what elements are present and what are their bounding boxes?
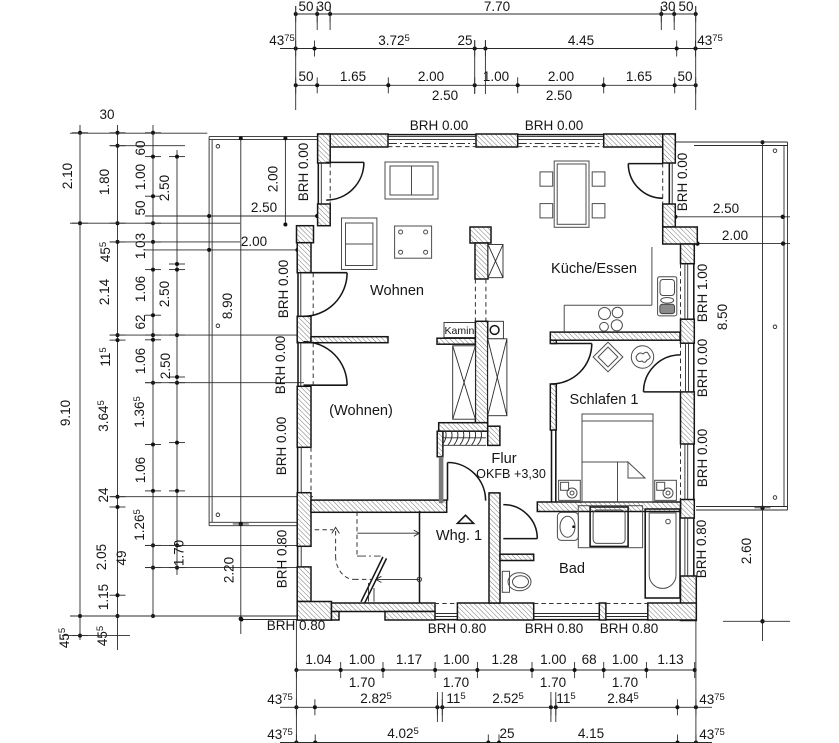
dining chairs — [540, 172, 553, 186]
svg-text:30: 30 — [99, 107, 114, 122]
svg-text:1.03: 1.03 — [133, 233, 148, 259]
left dimension chain L3 — [132, 125, 161, 618]
dimension line B1 (1.04/1.00/1.17/1.00/1.28/1.00/68/1.00/1.13) — [294, 652, 696, 690]
top wall window 2 (BRH 0.00) — [518, 134, 604, 136]
Wohnen bottom wall — [311, 500, 447, 512]
svg-text:9.10: 9.10 — [58, 400, 73, 426]
Kueche/Schlafen partition — [550, 332, 680, 340]
svg-text:BRH 0.00: BRH 0.00 — [695, 429, 710, 488]
terrace dim line 8.90 / 2.20 — [240, 137, 242, 634]
svg-text:4.15: 4.15 — [578, 726, 604, 741]
bed Schlafen — [582, 414, 653, 502]
svg-text:Schlafen 1: Schlafen 1 — [570, 392, 639, 408]
bottom exterior wall — [332, 603, 436, 612]
svg-text:1.00: 1.00 — [540, 652, 566, 667]
vent shaft X-box upper — [488, 245, 503, 278]
right terrace outline — [675, 142, 788, 510]
entrance triangle — [457, 515, 473, 523]
svg-text:1.15: 1.15 — [96, 584, 111, 610]
dimension line T3 (50/1.65/2.00/1.00/2.00/1.65/50 + 2.50,2.50) — [294, 69, 698, 103]
svg-text:30: 30 — [316, 0, 331, 14]
right exterior wall lower (x 680.5-694.3) — [681, 244, 695, 264]
left dimension chain L4 (2.50s, 1.70) — [157, 150, 187, 575]
svg-text:2.50: 2.50 — [251, 200, 277, 215]
svg-text:7.70: 7.70 — [484, 0, 510, 14]
kitchen sink unit — [658, 277, 677, 316]
shower Bad — [578, 506, 642, 548]
svg-text:2.05: 2.05 — [94, 544, 109, 570]
construction verticals bottom — [295, 620, 297, 743]
flur top-left corner strip — [437, 431, 443, 457]
svg-text:BRH 0.00: BRH 0.00 — [273, 336, 288, 395]
terrace posts — [216, 145, 220, 149]
terrace dim line 2.00 vertical — [284, 138, 286, 224]
left construction horizontals — [70, 132, 207, 134]
svg-text:1.04: 1.04 — [305, 652, 332, 667]
svg-text:1.70: 1.70 — [612, 675, 638, 690]
svg-text:1.65: 1.65 — [626, 69, 652, 84]
svg-text:60: 60 — [133, 140, 148, 155]
right wall terrace door (BRH 0.00) y343.2-391.9 into Schlafen — [693, 343, 695, 392]
right wall upper door (BRH 0.00) y163-204 into Kueche — [668, 163, 670, 204]
svg-text:2.20: 2.20 — [222, 557, 237, 583]
svg-text:Whg. 1: Whg. 1 — [436, 528, 482, 544]
svg-text:2.50: 2.50 — [157, 175, 172, 201]
Schlafen door from Flur — [551, 343, 592, 345]
svg-text:50: 50 — [133, 200, 148, 215]
svg-text:BRH 0.00: BRH 0.00 — [276, 260, 291, 319]
right wall kitchen window (BRH 1.00) y263.7-319.2 — [693, 264, 695, 320]
svg-text:1.80: 1.80 — [97, 169, 112, 195]
svg-text:2.00: 2.00 — [418, 69, 444, 84]
chimney hearth band / flur top wall — [439, 423, 488, 432]
svg-text:BRH 0.80: BRH 0.80 — [525, 621, 584, 636]
svg-text:Küche/Essen: Küche/Essen — [551, 261, 637, 277]
wall stub Wohnen divider — [311, 337, 388, 343]
stairwell dashed edge — [356, 512, 358, 557]
dimension line T1 (50/30/7.70/30/50) — [294, 0, 698, 22]
svg-text:1.00: 1.00 — [483, 69, 509, 84]
svg-text:24: 24 — [96, 487, 111, 503]
dining table — [554, 161, 589, 227]
stair upper flight line with arrow — [357, 532, 419, 534]
svg-text:BRH 0.80: BRH 0.80 — [275, 530, 290, 589]
svg-text:8.50: 8.50 — [715, 304, 730, 330]
plant Schlafen — [631, 346, 653, 368]
door swing left-top — [326, 161, 364, 163]
nightstand right with lamp — [655, 480, 677, 500]
svg-text:Kamin: Kamin — [445, 325, 475, 337]
right wall window (BRH 0.00) y444-499.5 — [693, 444, 695, 500]
left wall stair window B (BRH 0.80) y546.3-566.9 — [297, 546, 299, 567]
svg-text:2.50: 2.50 — [546, 88, 572, 103]
svg-text:Bad: Bad — [559, 561, 585, 577]
bottom wall window W1 (Whg.1) — [435, 619, 458, 621]
flur corner block right — [488, 426, 500, 445]
WC partition stub — [500, 554, 534, 560]
dimension line B2 (43.75/2.82.5/11.5/2.52.5/11.5/2.84.5/43.75) — [267, 691, 725, 715]
svg-text:1.70: 1.70 — [540, 675, 566, 690]
left terrace (balcony) outline — [145, 136, 319, 634]
stair lower flight line with arrow — [376, 578, 419, 580]
top-right corner block — [663, 134, 676, 163]
svg-text:Wohnen: Wohnen — [370, 283, 424, 299]
svg-text:68: 68 — [582, 652, 597, 667]
svg-text:BRH 1.00: BRH 1.00 — [695, 264, 710, 323]
kitchen counter — [651, 247, 653, 305]
svg-text:2.50: 2.50 — [158, 353, 173, 379]
svg-text:BRH 0.00: BRH 0.00 — [675, 153, 690, 212]
stair hall divider line — [419, 511, 421, 603]
chimney spine — [475, 321, 487, 422]
vent shaft X-box right — [488, 339, 507, 416]
dimension line T2 (43.75/3.72.5/25/4.45/43.75) — [269, 33, 723, 57]
svg-text:62: 62 — [133, 314, 148, 329]
svg-text:Flur: Flur — [491, 451, 516, 467]
svg-text:BRH 0.00: BRH 0.00 — [274, 417, 289, 476]
Schlafen left wall (Flur side) — [550, 384, 556, 430]
top exterior wall hatched segments — [318, 134, 388, 147]
left dimension chain L1 (2.10/9.10/45.5) — [57, 125, 88, 648]
svg-text:30: 30 — [660, 0, 675, 14]
svg-text:OKFB +3,30: OKFB +3,30 — [476, 467, 546, 481]
svg-text:1.65: 1.65 — [340, 69, 366, 84]
left dimension chain L2 — [94, 107, 129, 650]
chimney stem — [475, 243, 488, 279]
right wall step block y227-244 — [663, 227, 698, 244]
construction verticals top — [295, 6, 297, 110]
stair flight cut lines — [361, 557, 383, 602]
diamond chair Schlafen — [593, 342, 623, 372]
left exterior wall upper (x 317.6-330.2) — [318, 204, 331, 226]
svg-text:4.45: 4.45 — [568, 33, 594, 48]
top wall window 1 (BRH 0.00) — [388, 134, 476, 136]
Kamin label box — [444, 323, 475, 338]
svg-text:1.06: 1.06 — [133, 348, 148, 374]
svg-text:BRH 0.00: BRH 0.00 — [296, 143, 311, 202]
left wall door 1 (BRH 0.00) y272.7-316.3 — [297, 273, 299, 317]
svg-text:1.70: 1.70 — [349, 675, 375, 690]
svg-text:8.90: 8.90 — [220, 293, 235, 319]
nightstand left with lamp — [559, 480, 581, 500]
svg-text:2.00: 2.00 — [266, 166, 281, 192]
svg-text:2.00: 2.00 — [241, 234, 267, 249]
svg-text:50: 50 — [678, 0, 693, 14]
bottom wall window W3 (Bad, BRH 0.80) — [606, 619, 648, 621]
svg-text:2.50: 2.50 — [713, 201, 739, 216]
svg-text:BRH 0.00: BRH 0.00 — [525, 118, 584, 133]
left wall bottom corner block — [297, 602, 331, 621]
svg-text:BRH 0.80: BRH 0.80 — [428, 621, 487, 636]
svg-text:50: 50 — [677, 69, 692, 84]
left wall window A (BRH 0.00) y447.3-492.7 — [297, 447, 299, 492]
svg-text:1.17: 1.17 — [396, 652, 422, 667]
svg-text:1.70: 1.70 — [443, 675, 469, 690]
right wall bad window (BRH 0.80) y518-576 — [693, 518, 695, 576]
svg-text:2.60: 2.60 — [739, 538, 754, 564]
svg-text:2.00: 2.00 — [548, 69, 574, 84]
svg-text:BRH 0.00: BRH 0.00 — [410, 118, 469, 133]
svg-text:BRH 0.00: BRH 0.00 — [695, 339, 710, 398]
svg-text:1.06: 1.06 — [133, 276, 148, 302]
stair walking line dashed — [315, 529, 333, 531]
svg-text:BRH 0.80: BRH 0.80 — [600, 621, 659, 636]
bathtub Bad — [645, 509, 680, 598]
Flur/Bad + Schlafen/Bad wall — [537, 502, 680, 512]
stove burners — [599, 308, 611, 320]
washbasin Bad — [557, 512, 578, 540]
left wall step block — [297, 226, 314, 243]
coffee table with corner dots — [395, 226, 432, 258]
svg-text:1.28: 1.28 — [492, 652, 518, 667]
svg-text:2.50: 2.50 — [432, 88, 458, 103]
Bad left wall — [489, 493, 500, 603]
stair treads — [368, 583, 370, 602]
svg-text:1.70: 1.70 — [172, 540, 187, 566]
svg-text:50: 50 — [298, 0, 313, 14]
svg-text:2.00: 2.00 — [722, 228, 748, 243]
left exterior wall lower (x 297.2-311) — [297, 243, 311, 273]
svg-text:2.10: 2.10 — [60, 163, 75, 189]
right exterior wall upper (x 662.7-675.3) — [663, 204, 676, 227]
dim 2.00 horizontal left — [145, 249, 298, 251]
gray door post bar — [439, 457, 444, 504]
svg-text:BRH 0.80: BRH 0.80 — [694, 520, 709, 579]
svg-text:1.06: 1.06 — [133, 457, 148, 483]
svg-text:1.00: 1.00 — [349, 652, 375, 667]
svg-text:1.00: 1.00 — [612, 652, 638, 667]
svg-text:1.00: 1.00 — [443, 652, 469, 667]
svg-text:49: 49 — [114, 550, 129, 565]
sofa 1 (top, Wohnen) — [385, 162, 438, 199]
door Flur to stair hall — [447, 463, 449, 501]
Schlafen left wall top piece — [550, 340, 556, 343]
dimension line B3 (43.75/4.02.5/25/4.15/43.75) — [267, 726, 725, 743]
svg-text:1.00: 1.00 — [133, 164, 148, 190]
left wall french door (BRH 0.00) y163-204 — [317, 163, 319, 204]
vent shaft X-box left — [453, 346, 476, 419]
right dimension lines 2.50 / 2.00 / 8.50 / 2.60 — [663, 140, 790, 641]
WC — [502, 571, 509, 592]
chimney circle box — [486, 321, 504, 339]
svg-text:(Wohnen): (Wohnen) — [329, 403, 393, 419]
sofa 2 (left, Wohnen) — [342, 218, 377, 270]
right terrace posts — [773, 149, 777, 153]
door Flur to Bad — [503, 538, 537, 540]
svg-text:1.13: 1.13 — [657, 652, 683, 667]
Kamin hearth shelf — [437, 338, 475, 344]
svg-text:2.14: 2.14 — [97, 278, 112, 305]
dim 2.50 horizontal left — [145, 215, 317, 217]
svg-text:50: 50 — [298, 69, 313, 84]
left wall door 2 (BRH 0.00) y342.7-386.3 — [297, 343, 299, 387]
svg-text:2.50: 2.50 — [157, 281, 172, 307]
chimney top block — [470, 227, 491, 243]
top-left corner block — [318, 134, 331, 163]
svg-text:25: 25 — [499, 726, 514, 741]
svg-text:25: 25 — [457, 33, 472, 48]
radiator marks in Flur — [443, 444, 486, 446]
dashed shaft continuation — [474, 279, 476, 321]
bottom wall window W2 (Bad, BRH 0.80) — [534, 619, 600, 621]
